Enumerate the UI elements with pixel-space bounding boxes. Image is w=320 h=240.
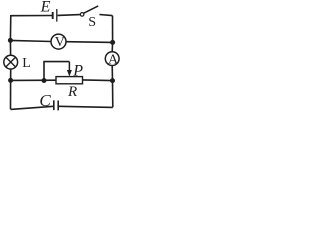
capacitor C left plate [53, 100, 55, 110]
wire: middle rail left segment [11, 79, 56, 81]
wire: left frame vertical (lamp bottom to middle-rail junction) [10, 69, 12, 80]
battery E long plate [56, 9, 58, 22]
junction dot: right voltmeter rail [110, 40, 115, 45]
wire: wiper riser vertical [43, 62, 45, 81]
wire: middle rail right segment [83, 79, 113, 82]
wire: bottom rail left of capacitor [11, 106, 54, 109]
lamp X cross stroke 2 [6, 57, 16, 67]
wire: right frame vertical (middle junction to ammeter bottom) [111, 66, 113, 81]
switch S blade [84, 6, 99, 13]
wire: bottom rail right of capacitor [59, 106, 113, 107]
wire: right frame vertical (bottom corner to middle-rail junction) [112, 81, 114, 108]
wire: wiper horizontal [43, 61, 69, 63]
svg-text:A: A [108, 53, 119, 68]
wire: left frame vertical (middle junction to bottom corner) [10, 80, 12, 109]
wire: battery to switch pivot [58, 14, 81, 17]
wire: left frame vertical (junction to lamp top) [9, 40, 11, 55]
svg-text:P: P [72, 62, 83, 79]
switch S pivot circle [80, 13, 84, 17]
wiper arrowhead P [67, 70, 72, 77]
wire: wiper drop to arrow [68, 62, 70, 71]
wire: right frame vertical (ammeter top to voltmeter-rail junction) [111, 42, 113, 51]
svg-text:C: C [39, 91, 51, 110]
svg-text:V: V [55, 35, 65, 50]
junction dot: right middle rail [110, 78, 115, 83]
wire: right frame vertical (junction to top corner) [112, 16, 114, 43]
svg-text:L: L [22, 56, 31, 71]
capacitor C right plate [57, 101, 59, 111]
ammeter A circle [105, 52, 119, 66]
wire: voltmeter rail left segment [10, 40, 51, 41]
junction dot: wiper riser on middle rail [42, 78, 47, 83]
wire: top rail left segment [11, 15, 52, 17]
junction dot: left voltmeter rail [8, 38, 13, 43]
lamp L symbol circle [4, 55, 18, 69]
wire: left frame vertical (top corner to voltmeter-rail junction) [9, 15, 11, 40]
svg-text:E: E [40, 0, 51, 15]
wire: top rail right segment (switch fixed contact to corner) [99, 15, 112, 16]
voltmeter V circle [51, 34, 66, 49]
junction dot: left middle rail [8, 78, 13, 83]
svg-text:R: R [67, 84, 77, 100]
lamp X cross stroke 1 [6, 57, 16, 67]
battery E short plate [52, 12, 54, 19]
svg-text:S: S [88, 15, 96, 30]
potentiometer R body rectangle [56, 77, 83, 84]
wire: voltmeter rail right segment [66, 41, 113, 44]
